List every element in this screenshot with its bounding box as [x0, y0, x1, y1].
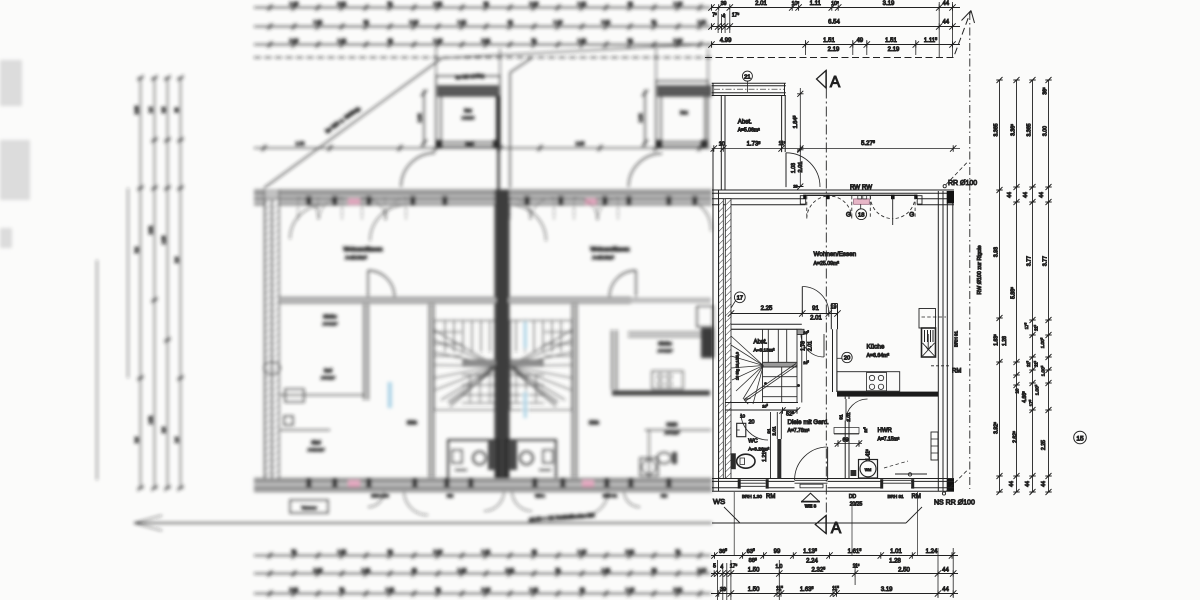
svg-text:51: 51 [291, 549, 297, 554]
svg-text:WC: WC [748, 439, 757, 445]
vertical dimension 1.845 [799, 88, 801, 187]
svg-text:A=6.6m²: A=6.6m² [323, 322, 338, 326]
svg-text:2.325: 2.325 [812, 567, 826, 574]
svg-text:WS: WS [713, 497, 725, 506]
top dimension chain row 1 [711, 7, 960, 9]
svg-text:49: 49 [856, 38, 863, 44]
svg-text:RR Ø100: RR Ø100 [948, 180, 977, 187]
svg-text:16 Stg 18,1/25,0: 16 Stg 18,1/25,0 [736, 352, 740, 380]
svg-text:1.51: 1.51 [602, 568, 611, 573]
diagonal boundary line with slanted label [264, 58, 442, 188]
svg-text:2.19: 2.19 [530, 1, 539, 6]
svg-text:49: 49 [531, 549, 537, 554]
svg-text:2.6: 2.6 [174, 256, 179, 262]
svg-text:A=3.13m²: A=3.13m² [754, 348, 775, 354]
bottom dimension chain row 2 [711, 573, 958, 575]
svg-text:88: 88 [174, 107, 179, 112]
glazed door leaves and swing arcs [807, 196, 915, 219]
svg-text:DD: DD [849, 494, 857, 500]
svg-text:A=3.26m²: A=3.26m² [748, 447, 769, 453]
svg-text:2.01: 2.01 [602, 20, 611, 25]
svg-text:1.24: 1.24 [926, 549, 938, 555]
bottom exterior wall [712, 479, 954, 492]
svg-text:1.13: 1.13 [626, 587, 635, 592]
svg-text:A=7.15m²: A=7.15m² [878, 437, 900, 443]
svg-text:2.01: 2.01 [798, 162, 804, 173]
boiler [931, 432, 938, 460]
svg-text:18: 18 [858, 212, 864, 218]
svg-text:1.73: 1.73 [296, 141, 305, 146]
blurred annex WE1 [436, 76, 500, 146]
svg-text:1.01: 1.01 [458, 20, 467, 25]
svg-text:BRH 1.30: BRH 1.30 [742, 494, 762, 499]
horizontal dimension row y=148 [712, 148, 960, 150]
svg-text:2.01: 2.01 [808, 341, 814, 351]
blurred bottom outer wall [254, 479, 712, 492]
svg-text:A=7.78m²: A=7.78m² [788, 428, 810, 434]
WE3 house marker [802, 493, 819, 501]
svg-text:1.01: 1.01 [578, 1, 587, 6]
svg-text:19: 19 [831, 305, 837, 311]
svg-text:1.50: 1.50 [748, 567, 760, 573]
kitchen door arc [801, 334, 824, 357]
svg-text:A=25.09m²: A=25.09m² [345, 255, 367, 260]
kitchen counter right with flue [919, 309, 936, 329]
svg-text:1.13: 1.13 [578, 549, 587, 554]
svg-text:2.24: 2.24 [806, 558, 818, 564]
svg-text:1.635: 1.635 [800, 586, 814, 593]
svg-text:2.01: 2.01 [674, 587, 683, 592]
svg-text:44: 44 [1007, 192, 1013, 198]
svg-text:2.19: 2.19 [888, 47, 900, 53]
right exterior wall [938, 191, 953, 491]
dim 69 [834, 434, 862, 444]
blurred staircase WE2 [509, 321, 572, 411]
dimension 52.5 below stairs [783, 410, 798, 412]
svg-text:1.11: 1.11 [810, 1, 822, 7]
svg-text:2.50: 2.50 [898, 567, 910, 573]
svg-text:2.01: 2.01 [755, 1, 767, 7]
svg-text:HWR: HWR [878, 428, 893, 434]
base level reference line with arrow [134, 522, 712, 524]
svg-text:3.77: 3.77 [1043, 256, 1049, 266]
svg-text:Bau: Bau [680, 110, 688, 115]
svg-text:HWR: HWR [667, 422, 679, 427]
svg-text:Wohnen/Essen: Wohnen/Essen [814, 251, 857, 258]
svg-text:1.03: 1.03 [791, 163, 797, 173]
blurred entry door swings [368, 491, 640, 515]
svg-text:WE 3: WE 3 [805, 503, 817, 508]
svg-text:44: 44 [1039, 192, 1045, 198]
blurred terrace-door swing arcs [297, 198, 299, 220]
blurred party wall between units [495, 190, 510, 479]
svg-text:Diele: Diele [407, 420, 418, 425]
svg-text:1.84: 1.84 [417, 113, 422, 122]
svg-text:1.01: 1.01 [530, 587, 539, 592]
svg-text:3.19: 3.19 [883, 1, 895, 7]
svg-text:A=7.1m²: A=7.1m² [665, 431, 680, 435]
svg-text:2.0: 2.0 [161, 426, 166, 432]
svg-text:Wohnen/Essen: Wohnen/Essen [343, 247, 382, 253]
svg-text:1.51: 1.51 [386, 587, 395, 592]
svg-text:51: 51 [531, 38, 537, 43]
svg-text:3.19: 3.19 [881, 587, 893, 593]
svg-text:2.25: 2.25 [576, 141, 585, 146]
svg-text:51: 51 [651, 20, 657, 25]
svg-text:2.01: 2.01 [626, 549, 635, 554]
svg-text:88: 88 [627, 38, 633, 43]
svg-text:Diele: Diele [589, 420, 600, 425]
svg-text:Diele mit Gard.: Diele mit Gard. [788, 419, 830, 426]
svg-text:RM: RM [912, 494, 921, 500]
washbasin [737, 423, 746, 436]
entrance threshold [795, 480, 828, 483]
svg-text:44: 44 [1009, 481, 1015, 487]
position circle 17 [734, 292, 745, 303]
svg-text:Terrasse: Terrasse [301, 505, 317, 510]
svg-text:1.615: 1.615 [848, 548, 862, 555]
svg-text:BRH 91: BRH 91 [954, 331, 959, 348]
svg-text:39: 39 [721, 1, 727, 7]
svg-text:NS RR Ø100: NS RR Ø100 [934, 500, 975, 507]
svg-text:BRH 91: BRH 91 [603, 493, 618, 498]
svg-text:39: 39 [720, 587, 726, 593]
dark hatched interior wall [837, 392, 938, 397]
blurred left vertical dimension chains [141, 77, 181, 489]
blurred annex WE2 [656, 81, 708, 146]
svg-text:2.19: 2.19 [828, 47, 840, 53]
kitchen west wall [833, 329, 837, 392]
svg-text:21: 21 [744, 74, 750, 80]
svg-text:2.19: 2.19 [482, 587, 491, 592]
blurred left half of scanned plan [0, 1, 714, 597]
annex walls [721, 96, 725, 191]
svg-text:1.01: 1.01 [338, 38, 347, 43]
sharp unit WE3 plan [705, 1, 1086, 600]
svg-text:RW Ø100 zur Rigole: RW Ø100 zur Rigole [977, 245, 983, 294]
svg-text:2.19: 2.19 [434, 549, 443, 554]
svg-text:91: 91 [766, 428, 771, 434]
svg-text:49: 49 [507, 20, 513, 25]
svg-text:49: 49 [579, 587, 585, 592]
svg-text:G: G [909, 212, 914, 219]
svg-text:6.54: 6.54 [828, 20, 840, 26]
base outline [712, 507, 922, 523]
blurred top dimension chains [254, 7, 711, 9]
svg-text:88: 88 [651, 568, 657, 573]
svg-text:5.275: 5.275 [861, 140, 875, 147]
hwr west wall with door [845, 397, 849, 479]
svg-text:BRH 1.30: BRH 1.30 [371, 493, 389, 498]
svg-text:Wohnen/Essen: Wohnen/Essen [590, 247, 629, 253]
svg-text:1.0x2.0: 1.0x2.0 [462, 116, 474, 120]
svg-text:5.27: 5.27 [466, 141, 475, 146]
svg-text:3.77: 3.77 [1027, 256, 1033, 266]
svg-text:2.01: 2.01 [771, 426, 777, 436]
svg-text:1.51: 1.51 [885, 38, 897, 44]
svg-text:10: 10 [1015, 388, 1020, 393]
svg-text:RW RW: RW RW [850, 184, 872, 191]
svg-text:44: 44 [942, 20, 949, 26]
top dimension chain row 3 [711, 44, 960, 46]
svg-text:A=5.06m²: A=5.06m² [738, 128, 760, 134]
window in bottom wall [741, 480, 766, 486]
svg-text:1.13: 1.13 [290, 1, 299, 6]
living room door [801, 287, 803, 314]
svg-text:51: 51 [387, 1, 393, 6]
svg-text:A=25.09m²: A=25.09m² [814, 261, 840, 267]
svg-text:51: 51 [339, 587, 345, 592]
wc door [741, 413, 768, 440]
svg-text:1.78: 1.78 [801, 341, 807, 351]
svg-text:44: 44 [1041, 481, 1047, 487]
svg-text:Abst.: Abst. [738, 119, 752, 126]
svg-text:1.3: 1.3 [174, 436, 179, 442]
svg-text:1.13: 1.13 [434, 38, 443, 43]
svg-text:A=5.3m²: A=5.3m² [321, 376, 335, 380]
svg-text:20: 20 [844, 356, 850, 362]
blurred mid dimension line [254, 147, 711, 149]
svg-text:3.00: 3.00 [1043, 126, 1049, 136]
svg-text:5: 5 [713, 563, 716, 569]
svg-text:2.19: 2.19 [674, 38, 683, 43]
svg-text:Bad: Bad [324, 368, 332, 373]
svg-text:15: 15 [1076, 435, 1084, 442]
svg-text:1.13: 1.13 [674, 1, 683, 6]
svg-text:2.19: 2.19 [698, 568, 707, 573]
svg-text:44: 44 [1025, 481, 1031, 487]
svg-text:2.01: 2.01 [148, 225, 153, 234]
svg-text:A=6.6m²: A=6.6m² [658, 349, 673, 353]
blurred terrasse label box [290, 500, 328, 513]
left exterior wall [713, 149, 719, 492]
washing machine [859, 460, 878, 479]
section marker top [817, 71, 827, 89]
svg-text:17: 17 [737, 296, 743, 302]
svg-text:1.01: 1.01 [482, 549, 491, 554]
svg-text:1.735: 1.735 [747, 141, 761, 148]
svg-text:1.51: 1.51 [434, 1, 443, 6]
entrance door [827, 447, 829, 480]
svg-text:28: 28 [793, 185, 797, 189]
blurred bathrooms [448, 440, 498, 486]
svg-text:99: 99 [774, 549, 781, 555]
long vertical dash-dot line at right [969, 12, 971, 489]
blurred bottom dimension chains [254, 555, 711, 557]
stair side dims [806, 331, 808, 361]
svg-text:4.99: 4.99 [720, 38, 732, 44]
bottom dimension chain row 3 [711, 593, 958, 595]
svg-text:1.28: 1.28 [1002, 336, 1008, 346]
rear door [883, 480, 911, 483]
position circle 21 [742, 71, 752, 81]
blurred interior partition walls [430, 303, 577, 479]
blurred staircase WE1 [434, 321, 497, 411]
svg-text:3.9: 3.9 [134, 436, 139, 442]
wc east wall [770, 412, 772, 479]
svg-text:51: 51 [555, 568, 561, 573]
svg-text:49: 49 [411, 568, 417, 573]
svg-text:88: 88 [363, 20, 369, 25]
svg-text:1.0: 1.0 [148, 106, 153, 112]
svg-text:3.365: 3.365 [1027, 123, 1033, 136]
svg-text:1.38: 1.38 [161, 235, 166, 244]
blurred left outer wall [265, 190, 280, 491]
svg-text:2.01: 2.01 [482, 38, 491, 43]
svg-text:A: A [830, 74, 841, 91]
svg-text:5.2: 5.2 [134, 246, 139, 252]
svg-text:20: 20 [749, 420, 755, 426]
svg-text:88: 88 [435, 587, 441, 592]
wall stair/wc [725, 403, 798, 411]
toilet [731, 453, 736, 469]
svg-text:A=10.9m²: A=10.9m² [308, 448, 325, 452]
interior wall south of living room [731, 324, 802, 329]
svg-text:1.135: 1.135 [803, 548, 817, 555]
svg-text:49: 49 [627, 1, 633, 6]
svg-text:1.51: 1.51 [578, 38, 587, 43]
faint smudges at left margin [0, 60, 30, 248]
svg-text:44: 44 [942, 1, 949, 7]
svg-text:Abst.: Abst. [754, 340, 768, 346]
opening jamb pieces [800, 196, 805, 204]
svg-text:2.25: 2.25 [761, 306, 773, 312]
svg-text:A=25.09m²: A=25.09m² [592, 255, 614, 260]
svg-text:10: 10 [719, 142, 725, 148]
svg-text:2.19: 2.19 [410, 20, 419, 25]
svg-text:2.19: 2.19 [314, 568, 323, 573]
section marker bottom [815, 516, 826, 534]
svg-text:BRH 91: BRH 91 [888, 494, 905, 499]
staircase WE3 [731, 329, 804, 404]
svg-text:RM: RM [447, 493, 453, 498]
top dimension chain row 2 [711, 26, 960, 28]
extension lines from plan to bottom chains [734, 492, 917, 556]
svg-text:91: 91 [839, 414, 844, 420]
svg-text:2.01: 2.01 [290, 587, 299, 592]
section line A-A [825, 89, 827, 516]
blurred WE2 kitchen [628, 333, 710, 337]
svg-text:1.84: 1.84 [638, 113, 643, 122]
dashed eaves outline with arrow [705, 11, 971, 58]
svg-text:51: 51 [675, 549, 681, 554]
svg-text:1.01: 1.01 [890, 549, 902, 555]
svg-text:1.50: 1.50 [748, 587, 760, 593]
svg-text:WE 1: WE 1 [535, 493, 546, 498]
svg-text:1.28: 1.28 [889, 558, 901, 564]
kitchen counter bottom + hob [837, 372, 900, 392]
svg-text:WM: WM [865, 468, 871, 472]
svg-text:G: G [846, 212, 851, 219]
blurred blue pipe marks [524, 322, 527, 348]
svg-text:49: 49 [387, 38, 393, 43]
annex roof band [712, 83, 786, 95]
svg-text:1.01: 1.01 [362, 568, 371, 573]
svg-text:1.51: 1.51 [823, 38, 835, 44]
svg-text:1.51: 1.51 [148, 415, 153, 424]
svg-text:1.13: 1.13 [458, 568, 467, 573]
svg-text:Kind: Kind [311, 440, 321, 445]
blurred dashed eaves line [254, 57, 711, 59]
svg-text:Küche: Küche [867, 344, 885, 351]
svg-text:Küche: Küche [658, 341, 672, 347]
svg-text:2.01: 2.01 [846, 412, 852, 422]
svg-text:44: 44 [1023, 192, 1029, 198]
svg-text:2.01: 2.01 [810, 316, 822, 322]
svg-text:3.5: 3.5 [161, 106, 166, 112]
blurred WE2 wc fixtures [657, 453, 671, 464]
svg-text:RM: RM [661, 493, 667, 498]
blurred interior wall with doors [279, 298, 496, 304]
blurred main top wall [254, 190, 712, 205]
svg-text:A=6.64m²: A=6.64m² [867, 353, 890, 359]
circle 15 [1074, 431, 1087, 444]
svg-text:1.13: 1.13 [554, 20, 563, 25]
svg-text:2.19: 2.19 [290, 38, 299, 43]
svg-text:2.01: 2.01 [338, 1, 347, 6]
svg-text:69: 69 [843, 438, 849, 444]
svg-text:1.51: 1.51 [338, 549, 347, 554]
bottom dimension chain row 1 [711, 555, 958, 557]
svg-text:1.51: 1.51 [698, 20, 707, 25]
right vertical dimension chains [1000, 80, 1049, 492]
svg-text:RM: RM [766, 494, 775, 500]
svg-text:Küche: Küche [323, 314, 337, 320]
svg-text:88: 88 [483, 1, 489, 6]
svg-text:91: 91 [812, 306, 819, 312]
svg-text:10: 10 [740, 414, 746, 419]
svg-text:1.51: 1.51 [314, 20, 323, 25]
RM smoke detector right [931, 365, 950, 367]
svg-text:88: 88 [387, 549, 393, 554]
svg-text:2.01: 2.01 [506, 568, 515, 573]
svg-text:3.93: 3.93 [994, 247, 1000, 257]
main top exterior wall [712, 190, 954, 193]
pink lintel mark with leader [854, 199, 870, 204]
svg-text:3.365: 3.365 [994, 123, 1000, 136]
svg-text:RM: RM [952, 369, 961, 375]
svg-text:Bau: Bau [464, 108, 472, 113]
dimension line y=313 [731, 313, 838, 315]
annex door [785, 153, 787, 187]
svg-text:2.25: 2.25 [1041, 440, 1047, 450]
svg-text:44: 44 [942, 567, 949, 573]
svg-text:2.88: 2.88 [134, 105, 139, 114]
blurred WE1 bath fixtures [264, 362, 280, 374]
svg-text:44: 44 [942, 587, 949, 593]
